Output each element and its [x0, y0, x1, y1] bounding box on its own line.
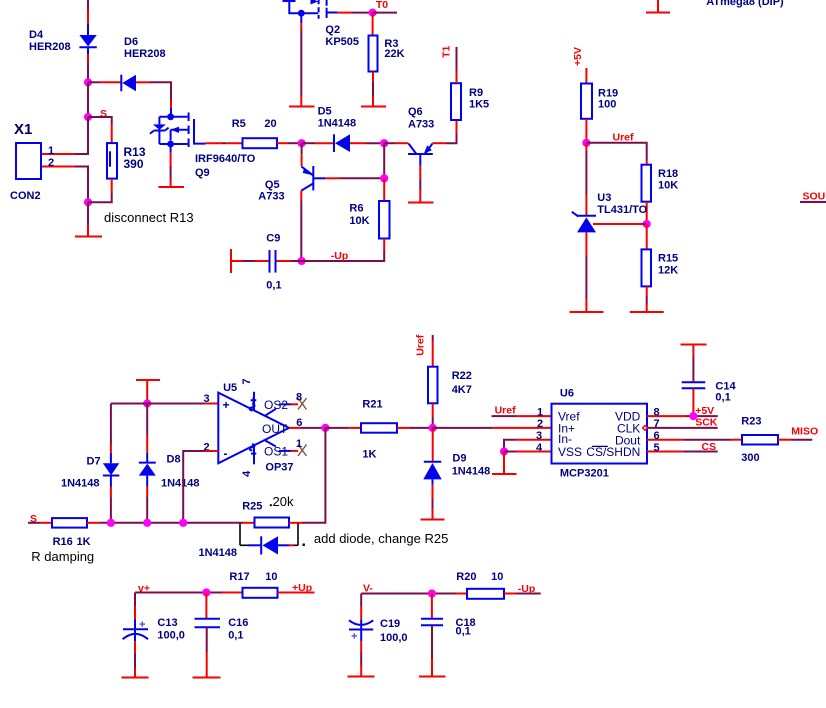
svg-text:CON2: CON2	[10, 190, 41, 202]
wire: U6 pin5 CS stub	[647, 451, 718, 453]
resistor R21	[361, 423, 397, 433]
svg-text:ATmega8 (DIP): ATmega8 (DIP)	[706, 0, 784, 8]
svg-text:Uref: Uref	[495, 405, 517, 417]
resistor R18	[642, 165, 652, 202]
svg-text:Q2: Q2	[325, 24, 340, 36]
annotation: 20k	[265, 492, 299, 511]
ground (R3)	[361, 106, 386, 108]
diode D7	[103, 453, 119, 487]
svg-text:A733: A733	[258, 191, 284, 203]
diode D4	[79, 24, 96, 54]
wire: node G down to D8	[146, 404, 148, 453]
svg-text:3: 3	[204, 393, 210, 405]
wire: U3 anode to ground	[585, 232, 587, 312]
transistor Q5	[301, 166, 325, 191]
wire: R13 bottom to lower node	[88, 179, 112, 203]
wire: node M to ground	[503, 452, 505, 475]
wire: S to R16	[28, 522, 52, 524]
node G (U5 +input)	[143, 399, 151, 407]
node A (R5/D5/Q5)	[298, 139, 306, 147]
node S	[84, 113, 92, 121]
ground (X1)	[75, 236, 102, 238]
wire: R15 bottom to ground	[646, 286, 648, 312]
wire: v+ rail horizontal	[135, 592, 243, 594]
ADC U6 MCP3201	[552, 404, 648, 464]
capacitor C14	[682, 382, 706, 388]
ground (C16)	[193, 677, 221, 679]
wire: node A down to Q5 emitter	[301, 143, 303, 166]
node L (R21/R22/D9/U6 In+)	[429, 424, 437, 432]
op-amp U5 OP37	[218, 392, 291, 465]
svg-text:X1: X1	[14, 121, 32, 138]
svg-text:SOUND: SOUND	[803, 191, 826, 203]
svg-text:20: 20	[264, 118, 276, 130]
node B (D5/Q6)	[380, 139, 388, 147]
svg-text:-: -	[224, 447, 228, 461]
wire: port to C9	[231, 260, 269, 262]
capacitor C18	[421, 619, 443, 625]
wire: node E to R18	[586, 143, 646, 165]
capacitor C9	[270, 250, 276, 273]
svg-text:SCK: SCK	[695, 416, 718, 428]
wire: node B down to node C	[383, 143, 385, 178]
svg-text:+5V: +5V	[695, 405, 714, 417]
svg-text:+Up: +Up	[292, 582, 312, 594]
wire: R5 to node A	[277, 142, 302, 144]
wire: S node down to X1 pin1	[41, 117, 88, 154]
svg-text:C13: C13	[157, 617, 177, 629]
svg-text:R22: R22	[452, 370, 472, 382]
svg-text:390: 390	[124, 157, 144, 171]
capacitor C16	[195, 619, 221, 628]
wire: R20 to -Up	[504, 593, 541, 595]
svg-text:3: 3	[536, 430, 542, 442]
svg-text:R6: R6	[349, 203, 363, 215]
svg-text:R25: R25	[242, 501, 262, 513]
added diode across R25 (black bracket)	[240, 524, 305, 555]
diode D6	[121, 75, 136, 92]
wire: C14 to +5V node	[692, 388, 694, 416]
net label SOUND (cut at right edge)	[800, 191, 826, 203]
wire: rail to C14	[692, 357, 694, 382]
wire: C9 to node D	[277, 260, 302, 262]
svg-text:-Up: -Up	[518, 583, 536, 595]
resistor R22	[428, 367, 438, 404]
wire: C13 to ground	[134, 641, 136, 677]
wire: R25 left lead	[243, 522, 255, 524]
pin 8 stub with no-connect X	[291, 398, 307, 410]
svg-text:2: 2	[537, 418, 543, 430]
svg-text:4K7: 4K7	[452, 384, 472, 396]
svg-text:A733: A733	[408, 119, 434, 131]
resistor R9	[451, 83, 461, 120]
svg-text:R21: R21	[362, 399, 382, 411]
resistor R16	[52, 518, 87, 528]
wire: C19 to ground	[360, 641, 362, 677]
svg-text:IRF9640/TO: IRF9640/TO	[195, 153, 256, 165]
transistor Q9 body diode and symbol	[150, 108, 205, 148]
wire: Q9 gate to R5	[205, 142, 242, 144]
svg-text:U6: U6	[560, 388, 574, 400]
svg-text:R5: R5	[232, 118, 246, 130]
svg-text:D9: D9	[452, 453, 466, 465]
wire: node F to R15	[646, 224, 648, 249]
wire: V- rail horizontal	[361, 593, 467, 595]
node D (-Up junction)	[298, 257, 306, 265]
ground (C13)	[122, 677, 149, 679]
wire: Q6 emitter to R9	[432, 120, 456, 143]
wire: Q5 base to node C	[325, 177, 384, 179]
wire: T1 stub down to R9	[456, 47, 458, 83]
wire: X1 pin2 to lower node	[41, 167, 88, 203]
svg-text:Q9: Q9	[195, 167, 210, 179]
svg-text:10: 10	[491, 571, 503, 583]
resistor R23	[742, 435, 778, 445]
node P (C18 top)	[428, 589, 436, 597]
wire: U3 ref to node F	[593, 223, 647, 225]
svg-text:+5V: +5V	[572, 47, 584, 66]
connector X1	[16, 143, 41, 179]
svg-text:OP37: OP37	[265, 462, 293, 474]
svg-text:CS/SHDN: CS/SHDN	[586, 445, 640, 459]
resistor R13	[107, 143, 117, 179]
wire: Q2 source to ground	[300, 13, 302, 106]
pin 1 stub with no-connect X	[291, 445, 307, 457]
svg-text:R damping: R damping	[31, 549, 94, 564]
svg-text:R18: R18	[658, 168, 678, 180]
diode D8	[139, 453, 156, 487]
svg-text:1N4148: 1N4148	[318, 118, 357, 130]
wire: D6 to Q9 source	[136, 82, 171, 107]
svg-text:D4: D4	[29, 29, 44, 41]
svg-text:1: 1	[296, 438, 302, 450]
node M (U6 VSS)	[500, 447, 508, 455]
svg-text:D7: D7	[87, 456, 101, 468]
ground (C18)	[419, 676, 446, 678]
svg-text:1N4148: 1N4148	[61, 478, 100, 490]
wire: D5 to node B	[350, 142, 384, 144]
ground (U6 VSS)	[492, 473, 517, 475]
svg-text:OS1: OS1	[264, 445, 288, 459]
svg-text:10: 10	[265, 571, 277, 583]
wire: node B to Q6 collector	[384, 142, 408, 144]
svg-text:1N4148: 1N4148	[161, 478, 200, 490]
wire: lower node to ground	[87, 202, 89, 236]
wire: node L to U6 In+ pin2	[433, 427, 552, 429]
svg-text:1K: 1K	[77, 536, 91, 548]
svg-text:MCP3201: MCP3201	[560, 468, 609, 480]
shunt regulator U3 TL431	[572, 212, 596, 233]
wire: v+ down to C13	[134, 593, 136, 620]
wire: U6 pin8 VDD stub	[647, 415, 718, 417]
svg-text:T1: T1	[441, 46, 453, 58]
resistor R20	[467, 589, 504, 599]
node D4/D6 junction	[84, 78, 92, 86]
wire: node G to U5 pin3	[111, 403, 218, 405]
wire: R23 to MISO	[778, 439, 812, 441]
svg-text:R20: R20	[456, 571, 476, 583]
svg-text:6: 6	[654, 430, 660, 442]
svg-text:D6: D6	[124, 36, 138, 48]
wire: R22 bottom to node L	[432, 403, 434, 428]
node N (+5V)	[689, 412, 697, 420]
svg-text:D5: D5	[318, 106, 332, 118]
svg-text:7: 7	[241, 378, 253, 384]
ground (Q6)	[408, 202, 434, 204]
svg-text:8: 8	[654, 406, 660, 418]
clock marker and pin7 stub (SCK)	[643, 426, 718, 431]
node T0	[369, 9, 377, 17]
capacitor C19 (electrolytic)	[349, 619, 373, 641]
wire: node H to R21	[325, 427, 361, 429]
diode D5	[334, 134, 350, 152]
svg-text:100,0: 100,0	[157, 630, 185, 642]
svg-text:1K: 1K	[362, 449, 376, 461]
svg-text:7: 7	[654, 418, 660, 430]
wire: C16 to ground	[206, 627, 208, 677]
wire: Q2 drain to T0 node	[337, 12, 373, 14]
port terminal (C9 left)	[230, 249, 232, 273]
svg-text:100: 100	[598, 99, 616, 111]
svg-text:HER208: HER208	[29, 41, 71, 53]
resistor R6	[379, 201, 390, 239]
svg-text:10K: 10K	[349, 215, 369, 227]
wire: junction vertical to S node	[87, 82, 89, 117]
annotation: R damping	[27, 547, 98, 566]
svg-text:disconnect R13: disconnect R13	[104, 210, 194, 225]
svg-text:OS2: OS2	[264, 398, 288, 412]
svg-text:R17: R17	[229, 571, 249, 583]
wire: S node to R13 top	[88, 117, 112, 143]
node J (D8 bottom)	[143, 519, 151, 527]
svg-text:Q6: Q6	[408, 106, 423, 118]
node I (D7 bottom)	[107, 519, 115, 527]
svg-text:R15: R15	[658, 253, 678, 265]
diode D9	[423, 462, 441, 484]
node K (U5 pin2 branch)	[179, 519, 187, 527]
wire: T0 stub right	[373, 12, 397, 14]
ground (Q9)	[159, 186, 185, 188]
svg-text:KP505: KP505	[325, 36, 359, 48]
annotation: disconnect R13	[97, 205, 204, 230]
ground (R15)	[630, 311, 664, 313]
ground (D9)	[421, 519, 445, 521]
svg-text:20k: 20k	[273, 494, 294, 509]
ground (Q2)	[289, 106, 315, 108]
svg-text:+: +	[223, 398, 230, 412]
svg-text:22K: 22K	[384, 48, 404, 60]
svg-text:0,1: 0,1	[456, 626, 471, 638]
svg-text:10K: 10K	[658, 180, 678, 192]
wire: node P to C18	[431, 594, 433, 619]
wire: R19 bottom to node E	[585, 119, 587, 143]
svg-text:OUT: OUT	[262, 422, 288, 436]
ground (top right, ATmega8)	[646, 0, 670, 13]
wire: Uref to U6 pin1	[492, 415, 552, 417]
wire: R18 bottom to node F	[646, 202, 648, 224]
svg-text:0,1: 0,1	[228, 630, 243, 642]
power rail symbol (above U5)	[136, 380, 160, 404]
svg-text:1N4148: 1N4148	[199, 547, 238, 559]
resistor R25	[255, 518, 290, 528]
svg-text:Uref: Uref	[414, 334, 426, 356]
wire: V- down to C19	[360, 594, 362, 620]
wire: node A to D5	[302, 142, 333, 144]
wire: U5 output to node H	[289, 427, 325, 429]
wire: input net vertical above D4	[87, 0, 89, 24]
wire: D9 anode to ground	[432, 484, 434, 520]
wire: T0 down to R3	[372, 13, 374, 36]
node E (Uref)	[582, 139, 590, 147]
svg-text:1: 1	[537, 406, 543, 418]
wire: node C to R6	[383, 178, 385, 201]
wire: C18 to ground	[431, 625, 433, 676]
svg-text:CS: CS	[702, 441, 717, 453]
svg-text:U5: U5	[223, 382, 237, 394]
wire: Q9 drain to ground	[170, 144, 172, 187]
svg-text:R23: R23	[741, 416, 761, 428]
svg-text:C19: C19	[380, 618, 400, 630]
node F (U3 ref/R15)	[643, 220, 651, 228]
wire: D7 to bottom wire	[110, 487, 112, 523]
wire: node L down to D9	[432, 428, 434, 461]
resistor R15	[642, 249, 652, 286]
svg-text:2: 2	[48, 157, 54, 169]
wire: R16 to bottom feedback wire	[87, 522, 243, 524]
wire: node O to C16	[205, 593, 207, 619]
svg-text:Uref: Uref	[613, 132, 635, 144]
svg-text:5: 5	[654, 442, 660, 454]
node C (Q5 base/R6)	[380, 174, 388, 182]
svg-text:D8: D8	[167, 454, 181, 466]
resistor R19	[581, 84, 592, 119]
annotation: add diode, change R25	[310, 527, 451, 549]
ground (U3)	[570, 311, 604, 313]
wire: +5V to R19	[585, 68, 587, 84]
ground (C19)	[348, 676, 375, 678]
wire: node M to U6 pin4	[504, 451, 552, 453]
svg-text:1N4148: 1N4148	[452, 466, 491, 478]
wire: D8 to bottom wire	[146, 487, 148, 523]
svg-text:0,1: 0,1	[715, 392, 730, 404]
svg-text:1K5: 1K5	[469, 99, 489, 111]
resistor R17	[243, 588, 278, 598]
svg-text:U3: U3	[597, 192, 611, 204]
svg-text:-Up: -Up	[331, 250, 349, 262]
wire: Uref stub to R22	[432, 335, 434, 367]
wire: Q5 collector down to -Up node	[300, 191, 302, 261]
svg-text:4: 4	[241, 470, 253, 477]
svg-text:R16: R16	[53, 536, 73, 548]
svg-text:HER208: HER208	[124, 48, 166, 60]
svg-text:Q5: Q5	[265, 179, 280, 191]
node O (C16 top)	[202, 588, 210, 596]
power rail symbol (above C14)	[681, 345, 707, 358]
wire: R17 to +Up	[278, 592, 315, 594]
resistor R3	[369, 36, 378, 72]
svg-text:VSS: VSS	[558, 445, 582, 459]
resistor R5	[243, 138, 278, 148]
svg-text:MISO: MISO	[791, 426, 818, 438]
node H (U5 out)	[321, 424, 329, 432]
transistor Q6	[408, 144, 433, 166]
wire: U6 pin3 loop to pin4 node	[504, 440, 552, 452]
svg-text:S: S	[100, 108, 107, 120]
wire: node to D6 anode	[88, 81, 121, 83]
svg-text:T0: T0	[376, 0, 388, 11]
svg-text:TL431/TO: TL431/TO	[597, 204, 647, 216]
wire: R21 to node L	[397, 427, 433, 429]
svg-text:8: 8	[296, 392, 302, 404]
wire: D4 cathode to node	[87, 54, 89, 82]
wire: node E down to U3 cathode	[585, 143, 587, 216]
wire: R25 right lead to corner and up to node H	[289, 428, 325, 523]
svg-text:1: 1	[48, 145, 54, 157]
transistor Q2 (partially cut at top)	[283, 0, 338, 19]
wire: U5 pin2 from bottom wire	[183, 451, 218, 523]
svg-text:C16: C16	[228, 617, 248, 629]
wire: left corner down to D7	[110, 404, 112, 453]
svg-text:12K: 12K	[658, 265, 678, 277]
wire: U6 pin6 Dout to R23	[647, 439, 742, 441]
wire: R3 bottom to ground	[372, 72, 374, 107]
svg-text:300: 300	[741, 452, 759, 464]
svg-text:add diode, change R25: add diode, change R25	[314, 531, 448, 546]
wire: R6 bottom to -Up wire	[302, 239, 385, 262]
svg-text:4: 4	[536, 442, 543, 454]
wire: Q6 base to ground	[419, 166, 421, 203]
svg-text:100,0: 100,0	[380, 632, 408, 644]
node X1 lower junction	[84, 198, 92, 206]
capacitor C13 (electrolytic)	[123, 620, 148, 642]
svg-text:R9: R9	[469, 87, 483, 99]
svg-text:C9: C9	[266, 233, 280, 245]
svg-text:0,1: 0,1	[266, 280, 281, 292]
